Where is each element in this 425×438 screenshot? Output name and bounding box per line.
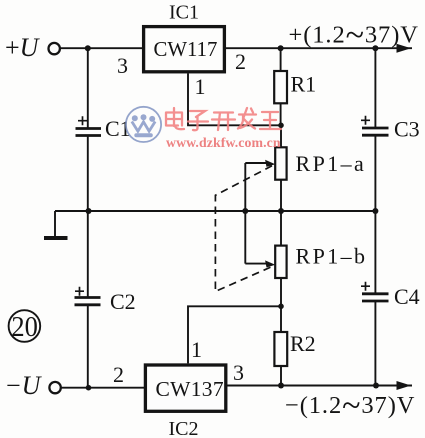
- svg-text:1: 1: [191, 337, 202, 362]
- resistor R1: [274, 48, 316, 125]
- node: R2 bottom junction: [278, 383, 284, 389]
- svg-text:−U: −U: [6, 371, 43, 400]
- wire: wiper bus vertical: [244, 163, 246, 264]
- svg-text:www.dzkfw.com.cn: www.dzkfw.com.cn: [166, 135, 281, 150]
- node: rail / wiper bus: [242, 208, 248, 214]
- svg-text:+U: +U: [5, 33, 41, 62]
- svg-text:3: 3: [233, 360, 244, 385]
- svg-text:1: 1: [195, 74, 206, 99]
- svg-text:−(1.2~37)V: −(1.2~37)V: [285, 387, 415, 424]
- char kai: [212, 113, 235, 131]
- node: rail / C3-C4 branch: [372, 208, 378, 214]
- potentiometer RP1-a: [275, 125, 366, 211]
- capacitor C3: [361, 48, 420, 211]
- svg-text:RP1–b: RP1–b: [296, 244, 368, 269]
- svg-text:C4: C4: [394, 284, 420, 309]
- char wang: [260, 112, 281, 129]
- wire: top rail IC1 pin 2 to output arrow: [226, 47, 412, 49]
- terminal -U: [6, 371, 61, 400]
- output arrowhead (bottom rail): [397, 381, 412, 390]
- node: -U / C2 branch junction: [86, 385, 92, 391]
- svg-text:3: 3: [117, 53, 128, 78]
- node: R1 / RP1-a / IC1 pin1 junction: [278, 123, 284, 129]
- node: R1 top junction: [278, 45, 284, 51]
- wire: IC1 pin 1 down and right to R1/RP1-a node: [188, 74, 281, 126]
- ground symbol: [44, 211, 68, 238]
- wiper arm RP1-a (wire + arrow): [245, 160, 275, 167]
- svg-text:C3: C3: [394, 117, 420, 142]
- svg-text:2: 2: [235, 49, 246, 74]
- terminal +U: [5, 33, 60, 62]
- wire: -U to IC2 pin 2: [61, 387, 145, 389]
- watermark logo (blue circle W): [126, 107, 161, 142]
- wire: +U to IC1 pin 3: [60, 47, 142, 49]
- node: RP1-b / R2 / IC2 pin1 junction: [278, 304, 284, 310]
- svg-text:2: 2: [113, 362, 124, 387]
- node: rail / C1-C2 branch: [86, 208, 92, 214]
- char zi: [188, 111, 208, 130]
- node: C4 bottom junction: [373, 383, 379, 389]
- svg-text:R2: R2: [290, 331, 316, 356]
- node: rail / RP1-a RP1-b: [278, 208, 284, 214]
- mechanical coupling dashed link RP1-a/RP1-b: [215, 166, 274, 292]
- watermark text (red chinese + url): [166, 108, 281, 130]
- wire: bottom rail IC2 pin 3 to output arrow: [226, 385, 412, 387]
- regulator IC1 CW117: [144, 2, 225, 72]
- svg-text:IC1: IC1: [169, 2, 199, 24]
- char dian: [166, 108, 184, 129]
- svg-text:IC2: IC2: [169, 418, 199, 438]
- figure number 20: [9, 310, 41, 343]
- char fa: [238, 108, 256, 129]
- node: junction +U / C1 branch: [85, 45, 91, 51]
- svg-text:R1: R1: [291, 72, 317, 97]
- potentiometer RP1-b: [275, 211, 367, 306]
- output arrowhead (top rail): [397, 44, 412, 53]
- svg-text:CW137: CW137: [156, 377, 224, 401]
- wiper arm RP1-b (wire + arrow): [245, 260, 275, 267]
- capacitor C2: [75, 211, 136, 388]
- wire: junction to IC2 pin 1: [188, 306, 281, 363]
- node: C3 top junction: [372, 45, 378, 51]
- capacitor C4: [361, 211, 420, 386]
- svg-text:20: 20: [11, 311, 38, 343]
- capacitor C1: [76, 48, 131, 211]
- regulator IC2 CW137: [145, 365, 225, 438]
- wire: middle ground rail: [55, 210, 375, 212]
- svg-text:+(1.2~37)V: +(1.2~37)V: [289, 17, 419, 54]
- resistor R2: [274, 306, 315, 385]
- svg-text:C2: C2: [110, 289, 136, 314]
- svg-text:RP1–a: RP1–a: [296, 151, 367, 176]
- svg-text:CW117: CW117: [154, 38, 218, 61]
